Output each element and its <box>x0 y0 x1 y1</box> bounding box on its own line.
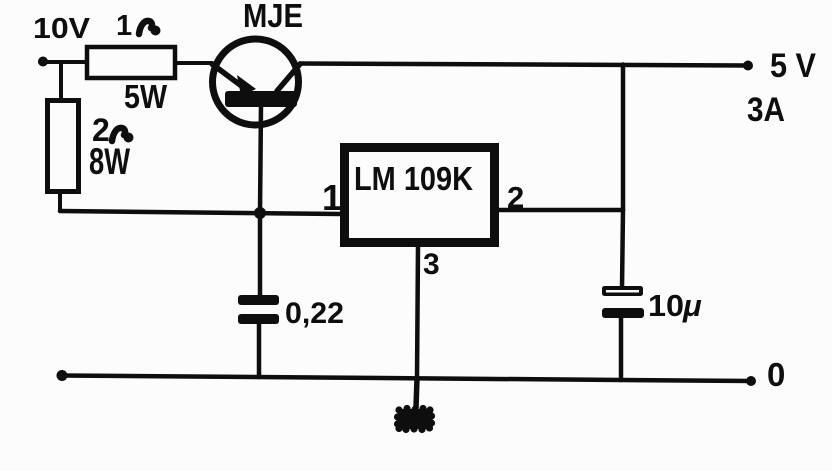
svg-text:5W: 5W <box>124 78 168 115</box>
svg-text:2: 2 <box>507 180 524 215</box>
svg-text:3A: 3A <box>747 91 785 129</box>
svg-text:10V: 10V <box>33 13 91 45</box>
svg-text:5 V: 5 V <box>770 47 816 85</box>
svg-text:10: 10 <box>648 288 684 323</box>
svg-text:μ: μ <box>682 288 702 323</box>
svg-text:0,22: 0,22 <box>285 297 344 330</box>
svg-text:1: 1 <box>116 10 132 42</box>
svg-text:8W: 8W <box>89 141 130 182</box>
svg-text:1: 1 <box>322 177 342 218</box>
svg-text:MJE: MJE <box>243 0 303 34</box>
svg-text:LM 109K: LM 109K <box>354 160 473 197</box>
svg-text:0: 0 <box>767 356 785 393</box>
svg-text:3: 3 <box>423 248 440 281</box>
